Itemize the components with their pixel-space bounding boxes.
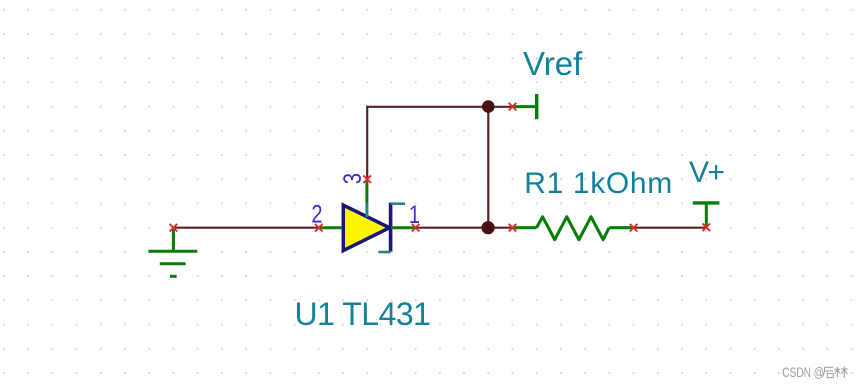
- svg-text:2: 2: [311, 201, 322, 229]
- cathode bend bottom: [378, 251, 390, 254]
- power port Vref: [514, 94, 537, 119]
- resistor R1: [514, 217, 634, 240]
- node X resistor left: [509, 224, 517, 232]
- pin 3 stub green: [365, 181, 368, 204]
- svg-text:Vref: Vref: [523, 45, 583, 82]
- wire top horizontal to Vref: [366, 106, 512, 108]
- watermark glyph qi: [822, 367, 833, 377]
- cathode bar: [389, 203, 393, 252]
- node X v+: [703, 224, 711, 232]
- wire pin 1 to junction to resistor: [416, 227, 513, 229]
- svg-text:3: 3: [339, 173, 367, 184]
- wire vertical junction drop: [487, 107, 489, 228]
- ground: [148, 228, 197, 276]
- svg-text:1: 1: [409, 201, 420, 229]
- wire ground to pin 2: [173, 227, 318, 229]
- power port V+: [693, 203, 720, 227]
- svg-text:R1 1kOhm: R1 1kOhm: [524, 167, 673, 200]
- junction dot lower: [482, 221, 495, 234]
- op-amp U1 TL431 triangle: [343, 205, 389, 250]
- junction dot upper: [482, 100, 495, 113]
- pin 3 stub teal: [365, 203, 368, 217]
- svg-text:V+: V+: [689, 156, 724, 189]
- svg-text:U1 TL431: U1 TL431: [295, 296, 431, 332]
- node X ground: [170, 224, 178, 232]
- node X vref: [509, 103, 517, 111]
- cathode bend top: [391, 202, 405, 205]
- pin 2 stub: [319, 226, 342, 229]
- node X pin1: [412, 224, 420, 232]
- pin 1 stub: [391, 226, 416, 229]
- node X pin3: [363, 175, 371, 183]
- svg-text:CSDN @: CSDN @: [782, 365, 824, 381]
- node X resistor right: [630, 224, 638, 232]
- watermark glyph lin: [835, 366, 848, 378]
- wire vertical to pin 3: [366, 106, 368, 178]
- node X pin2: [315, 224, 323, 232]
- wire resistor to V+: [634, 227, 707, 229]
